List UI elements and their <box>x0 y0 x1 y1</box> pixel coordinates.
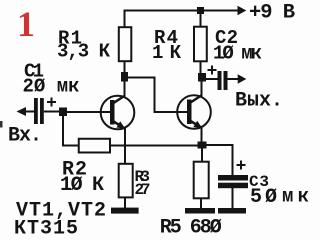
power +9V arrow <box>238 6 247 15</box>
ground under R5 <box>185 208 215 214</box>
wire top rail <box>124 10 240 12</box>
resistor R1 <box>119 27 132 61</box>
wire C2 to output arrow <box>228 78 239 80</box>
transistor VT1 <box>101 96 135 130</box>
wire VT2 base lead <box>154 111 189 113</box>
svg-text:1 К: 1 К <box>152 42 182 64</box>
svg-text:27: 27 <box>135 181 151 199</box>
plus sign C3 <box>237 164 246 166</box>
wire C3 bottom lead <box>232 188 234 209</box>
plus sign C2 <box>208 69 217 71</box>
wire J2 down to R2 <box>62 115 64 147</box>
wire VT1 base lead <box>66 111 110 113</box>
capacitor C1 input <box>17 107 27 116</box>
svg-text:3,3 К: 3,3 К <box>57 41 111 63</box>
svg-text:+9 В: +9 В <box>249 2 295 25</box>
wire R3 bottom lead <box>124 197 126 209</box>
wire VT1 emitter lead <box>124 128 126 148</box>
node J1 R1/VT1 collector <box>121 72 128 82</box>
node J3 R4/VT2 collector/C2 <box>198 73 206 82</box>
wire R1 bottom lead <box>124 61 126 74</box>
resistor R5 <box>201 148 203 163</box>
wire VT2 collector lead <box>201 81 203 96</box>
wire R1 top lead <box>124 10 126 29</box>
output arrow <box>238 74 247 83</box>
wire VT1 collector lead <box>124 81 126 96</box>
node J2 input/base/R2 <box>59 108 67 117</box>
svg-text:Вх.: Вх. <box>8 125 42 148</box>
svg-text:1: 1 <box>17 4 35 44</box>
svg-text:Вых.: Вых. <box>235 90 283 113</box>
wire R2 left lead <box>62 145 79 147</box>
wire VT2 emitter lead <box>201 127 203 143</box>
capacitor C3 <box>218 175 248 181</box>
wire J1 to VT2 base (down segment) <box>154 77 156 114</box>
plus sign C1 <box>47 101 56 103</box>
wire J1 to VT2 base (right segment) <box>127 77 156 79</box>
wire R5 bottom lead <box>200 198 202 209</box>
node top-rail junction <box>197 7 204 14</box>
wire C1 to J2 <box>44 111 60 113</box>
wire C3 top lead (down segment) <box>232 144 234 176</box>
ground under R3 <box>111 208 139 214</box>
resistor R4 <box>194 27 207 62</box>
svg-text:КТ315: КТ315 <box>14 218 78 240</box>
wire emitter rail R2 to J4 <box>110 145 198 147</box>
capacitor C2 <box>205 78 218 80</box>
wire J4 to C3 (right segment) <box>206 144 234 146</box>
ground under C3 <box>218 208 246 214</box>
svg-text:R5 68Ø: R5 68Ø <box>160 217 222 240</box>
svg-text:2Ø мк: 2Ø мк <box>23 76 80 98</box>
svg-text:1Ø мк: 1Ø мк <box>213 43 262 65</box>
wire R4 top lead <box>200 11 202 28</box>
scan speck left edge <box>0 121 3 128</box>
svg-text:1Ø К: 1Ø К <box>60 174 104 197</box>
node J4 VT2 emitter <box>198 142 207 149</box>
transistor VT2 <box>177 95 211 129</box>
resistor R2 <box>79 139 110 153</box>
wire R4 bottom lead <box>200 61 202 74</box>
resistor R3 <box>124 145 126 165</box>
